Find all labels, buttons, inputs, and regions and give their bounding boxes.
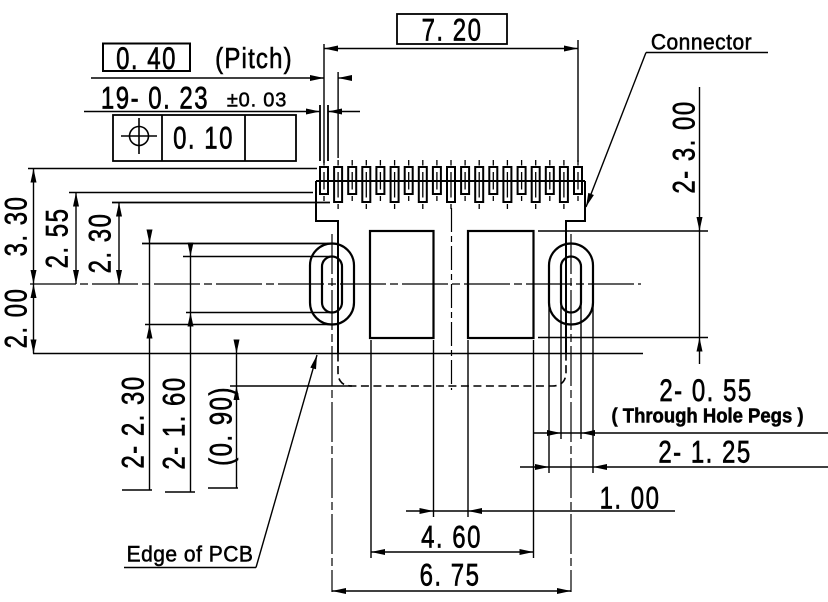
- svg-text:2- 1. 25: 2- 1. 25: [658, 434, 751, 469]
- dimension 2- 2.30 (peg pad length): [149, 231, 151, 490]
- dimension 3.30: [33, 169, 35, 285]
- connector outline right step: [566, 181, 585, 354]
- dimension 2.30: [118, 203, 120, 285]
- extension line rect bottom: [538, 337, 708, 339]
- extension line left rect outer edge: [370, 340, 372, 558]
- tolerance value 0.10: [173, 120, 234, 155]
- position symbol: [130, 127, 149, 146]
- extension line pad top (3.30): [28, 168, 317, 170]
- extension line peg outer top (2-2.30): [142, 243, 333, 245]
- svg-text:2- 1. 60: 2- 1. 60: [156, 376, 191, 469]
- tolerance text ±0.03: [227, 89, 287, 111]
- left peg vertical center line: [331, 234, 333, 592]
- extension line pad1 right edge: [327, 105, 329, 161]
- extension line right rect outer edge: [533, 340, 535, 558]
- connector body top edge: [316, 180, 585, 182]
- pad row: 19 SMT pads, width 0.23, pitch 0.40: [320, 167, 582, 202]
- extension line peg hole left: [560, 300, 562, 439]
- extension line left rect inner edge: [433, 340, 435, 517]
- extension line peg inner top (2-1.60): [183, 256, 331, 258]
- svg-text:1. 00: 1. 00: [600, 480, 661, 515]
- svg-text:2- 0. 55: 2- 0. 55: [659, 373, 752, 408]
- extension line pad1 left edge: [319, 105, 321, 161]
- dimension 6.75 (peg span): [332, 590, 571, 592]
- extension line short pad bottom (2.55): [69, 192, 313, 194]
- extension line pad1 center: [323, 44, 325, 163]
- dimension text 19- 0.23: [101, 80, 209, 115]
- svg-text:19- 0. 23: 19- 0. 23: [101, 80, 209, 115]
- dimension 1.00 (gap between shield pads): [406, 510, 675, 512]
- dimension line 0.40 pitch: [91, 77, 324, 79]
- extension line peg outer left: [548, 303, 550, 473]
- extension line peg inner bottom: [186, 312, 331, 314]
- label Connector with leader: [651, 30, 752, 55]
- extension line hidden outline bottom: [230, 385, 352, 387]
- svg-text:0. 40: 0. 40: [116, 41, 177, 76]
- extension line peg outer right: [592, 303, 594, 473]
- dimension 4.60: [371, 551, 534, 553]
- horizontal center line through pegs: [30, 283, 641, 285]
- basic dimension frame 0.40: [103, 44, 190, 72]
- dimension 2- 1.25 (peg pad width): [520, 466, 828, 468]
- svg-text:6. 75: 6. 75: [420, 557, 481, 592]
- extension line peg outer bottom: [145, 324, 333, 326]
- dimension 2- 0.55 (through hole): [534, 432, 828, 434]
- through-hole peg right: outer pad stadium: [549, 244, 593, 325]
- extension line right rect inner edge: [467, 340, 469, 517]
- through-hole peg left: outer pad stadium: [310, 244, 354, 325]
- feature control frame (position tolerance): [113, 115, 296, 161]
- svg-text:2- 3. 00: 2- 3. 00: [666, 100, 701, 193]
- through-hole peg right: inner hole stadium: [561, 257, 581, 313]
- svg-text:( Through Hole Pegs ): ( Through Hole Pegs ): [611, 405, 803, 428]
- through-hole peg left: inner hole stadium: [322, 257, 342, 313]
- label (Pitch): [215, 42, 293, 75]
- dimension line 19- 0.23: [84, 111, 320, 113]
- right peg vertical center line: [570, 234, 572, 592]
- svg-text:0. 10: 0. 10: [173, 120, 234, 155]
- shield solder pad right rectangle: [468, 231, 534, 338]
- extension line pad19 center: [577, 40, 579, 162]
- svg-text:Edge of PCB: Edge of PCB: [127, 542, 254, 567]
- extension line rect top (2-3.00): [538, 230, 708, 232]
- shield solder pad left rectangle: [370, 231, 434, 338]
- svg-text:±0. 03: ±0. 03: [227, 89, 287, 111]
- pad center tick marks: [324, 160, 578, 209]
- dimension 2- 1.60 (peg hole length): [190, 246, 192, 492]
- svg-text:2. 30: 2. 30: [82, 213, 117, 274]
- hidden connector outline below PCB edge (dashed): [338, 354, 566, 387]
- dimension 2.55: [75, 193, 77, 285]
- dimension line 7.20: [324, 48, 578, 50]
- svg-text:(Pitch): (Pitch): [215, 42, 293, 75]
- svg-text:(0. 90): (0. 90): [203, 386, 238, 466]
- basic dimension frame 7.20: [397, 14, 507, 44]
- reference dimension (0.90): [236, 341, 238, 488]
- extension line pad2 center: [337, 72, 339, 158]
- svg-text:2- 2. 30: 2- 2. 30: [115, 375, 150, 468]
- connector outline left step: [316, 181, 338, 354]
- dimension 2- 3.00 (shield pad height): [699, 87, 701, 364]
- svg-text:2. 55: 2. 55: [39, 208, 74, 269]
- extension line long pad bottom (2.30): [112, 202, 330, 204]
- label Edge of PCB with leader: [127, 542, 254, 567]
- svg-text:Connector: Connector: [651, 30, 752, 55]
- PCB edge line: [33, 353, 643, 355]
- svg-text:7. 20: 7. 20: [422, 12, 483, 47]
- svg-text:4. 60: 4. 60: [421, 519, 482, 554]
- drawing vertical center line: [451, 208, 453, 390]
- extension line peg hole right: [580, 300, 582, 439]
- svg-text:2. 00: 2. 00: [0, 288, 33, 349]
- dimension 2.00: [33, 284, 35, 354]
- label ( Through Hole Pegs ): [611, 405, 803, 428]
- svg-text:3. 30: 3. 30: [0, 196, 33, 257]
